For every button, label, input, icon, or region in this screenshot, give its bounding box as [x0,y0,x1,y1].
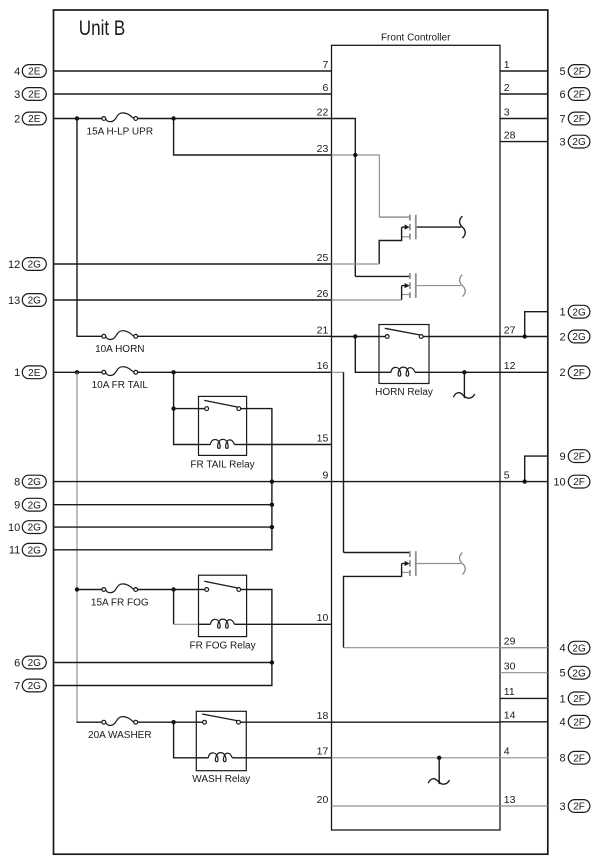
connector 13 2G [8,294,46,307]
wire pin 18 through to pin 14 [332,721,501,723]
fuse F3 10A FR TAIL [92,367,149,391]
squiggle Q2 output break [460,275,466,297]
svg-text:3: 3 [14,89,20,101]
svg-text:11: 11 [9,545,20,557]
wire pin 11 to 1 2F [500,697,548,699]
connector 8 2F right [559,751,589,764]
node junction bus-9 [270,479,274,483]
wire fuse F1 to pin 22 [138,118,332,120]
connector 9 2F [559,450,589,463]
wire pin 4 to 8 2F gray [500,757,548,759]
wire feeder corner to fuse F5 [76,721,102,723]
connector 10 2G [8,521,46,534]
svg-text:WASH Relay: WASH Relay [192,774,250,785]
relay K1 HORN Relay [375,325,433,398]
svg-text:2F: 2F [573,114,585,125]
svg-text:25: 25 [317,252,329,264]
svg-text:2G: 2G [572,307,586,318]
wire gray corner to FR FOG coil [174,623,199,625]
connector 6 2F [559,88,589,101]
svg-text:11: 11 [504,686,515,698]
wire pin 2 to 6 2F [500,93,548,95]
node junction 27 tap [523,334,527,338]
node junction horn coil gnd tap [462,370,466,374]
svg-text:2G: 2G [28,523,42,534]
svg-text:FR TAIL Relay: FR TAIL Relay [190,459,254,470]
svg-text:30: 30 [504,661,516,673]
svg-text:2G: 2G [28,681,42,692]
svg-text:9: 9 [559,451,565,463]
wire pin 12 to 2 2F [500,371,548,373]
wire 1 2E to fuse F3 [54,371,102,373]
wire pin 26 gray inside [332,299,402,301]
svg-text:13: 13 [8,295,20,307]
svg-text:22: 22 [317,106,329,118]
wire pin 27 to 2 2G [500,336,548,338]
svg-text:7: 7 [14,680,20,692]
wire 4 2E to pin 7 [54,70,332,72]
svg-text:29: 29 [504,636,516,648]
transistor Q1 MOSFET [379,215,415,240]
svg-text:2: 2 [14,113,20,125]
fuse F5 20A WASHER [88,717,152,741]
transistor Q3 MOSFET [344,551,416,576]
node junction bus-11 [270,525,274,529]
wire HORN switch out to pin 27 [429,336,500,338]
wire pin 22 down to MOSFET Q2 gate [332,119,356,277]
svg-text:6: 6 [559,89,565,101]
node junction wash gnd tap [437,756,441,760]
svg-text:2G: 2G [28,658,42,669]
svg-text:2G: 2G [572,643,586,654]
wire Q2 drain out gray [417,285,462,287]
wire 9 2G to bus [54,504,272,506]
svg-text:17: 17 [317,746,329,758]
connector 8 2G [14,475,46,488]
node junction pins 22-23 [353,153,357,157]
svg-text:2G: 2G [28,545,42,556]
svg-text:10: 10 [553,477,565,489]
wire FR FOG coil out to pin 10 [247,623,332,625]
svg-text:3: 3 [559,801,565,813]
wire horn coil feed down [355,337,379,373]
svg-text:18: 18 [317,710,329,722]
node junction F1 out [171,116,175,120]
wire 8 2G to pin 9 [54,481,332,483]
svg-text:Front Controller: Front Controller [381,33,451,44]
svg-text:2G: 2G [28,260,42,271]
svg-text:2G: 2G [28,296,42,307]
svg-text:2F: 2F [573,694,585,705]
svg-text:4: 4 [504,746,510,758]
connector 5 2G right [559,666,589,679]
svg-text:20: 20 [317,794,329,806]
wire pin 16 down to MOSFET Q3 gate [343,372,345,552]
svg-text:7: 7 [559,113,565,125]
connector 6 2G [14,656,46,669]
node junction F5 out [171,720,175,724]
svg-text:2: 2 [559,331,565,343]
wire branch up to 9 2F [525,456,548,482]
connector 7 2F [559,112,589,125]
svg-text:2G: 2G [28,477,42,488]
svg-text:2E: 2E [28,90,41,101]
relay K2 FR TAIL Relay [190,396,254,470]
fuse F2 10A HORN [95,331,144,355]
svg-text:16: 16 [317,360,329,372]
svg-text:21: 21 [317,324,329,336]
svg-text:10A FR TAIL: 10A FR TAIL [92,380,149,391]
wire FR TAIL coil out to pin 15 [247,444,332,446]
node junction fog feed [75,587,79,591]
svg-text:23: 23 [317,143,329,155]
wire fog feeder to fuse F4 [77,589,102,591]
svg-text:9: 9 [322,469,328,481]
svg-text:2F: 2F [573,90,585,101]
wire F3 branch down to FR TAIL relay [174,372,199,444]
fuse F1 15A H-LP UPR [87,113,154,137]
connector 5 2F [559,65,589,78]
svg-text:2F: 2F [573,368,585,379]
connector 4 2F right [559,715,589,728]
svg-text:2E: 2E [28,67,41,78]
ground wave below horn coil [453,372,474,398]
svg-text:FR FOG Relay: FR FOG Relay [189,640,255,651]
svg-text:2F: 2F [573,753,585,764]
connector 2 2G right [559,330,589,343]
wire pin 30 to 5 2G gray [500,672,548,674]
node junction 2E-B2 [75,370,79,374]
wire pin 29 row gray to right border [344,647,548,649]
svg-text:2F: 2F [573,67,585,78]
svg-text:27: 27 [504,324,516,336]
svg-text:10: 10 [317,612,329,624]
svg-text:5: 5 [504,469,510,481]
svg-text:28: 28 [504,129,516,141]
wire Q2 source down to pin 26 row [401,286,403,300]
connector 4 2G right [559,641,589,654]
svg-text:HORN Relay: HORN Relay [375,387,433,398]
svg-text:2F: 2F [573,802,585,813]
svg-text:12: 12 [504,360,516,372]
wire pin 17 through to pin 4 gray [332,757,501,759]
node junction F3 out [171,370,175,374]
node junction bus-6G [270,660,274,664]
connector 3 2G right [559,135,589,148]
ground wave below pin 17 row [428,758,449,784]
svg-text:13: 13 [504,794,516,806]
svg-text:4: 4 [559,643,565,655]
transistor Q2 MOSFET [355,273,416,298]
wire F1 branch down to pin 23 [174,119,332,156]
wire fuse F5 to WASH relay switch [138,721,197,723]
svg-text:2E: 2E [28,114,41,125]
node junction 5 tap [523,479,527,483]
connector 9 2G [14,498,46,511]
wire branch up to 1 2G [525,312,548,337]
connector 12 2G [8,258,46,271]
wire pin 16 gray stub into box [332,371,344,373]
svg-text:9: 9 [14,500,20,512]
connector 1 2E [14,366,46,379]
wire pin 25 gray inside [332,263,380,265]
wire pin 14 to 4 2F [500,721,548,723]
svg-text:1: 1 [559,693,565,705]
wire Q3 source step down to pin 29 row [344,564,402,648]
op-amp-box Front Controller U1 [332,45,501,830]
svg-text:2G: 2G [28,500,42,511]
svg-text:2: 2 [559,367,565,379]
wire FR TAIL switch feed [174,408,199,410]
connector 4 2E [14,65,46,78]
svg-text:4: 4 [559,717,565,729]
svg-text:15A H-LP UPR: 15A H-LP UPR [87,126,154,137]
svg-text:3: 3 [504,106,510,118]
svg-text:3: 3 [559,137,565,149]
svg-text:15: 15 [317,432,329,444]
svg-text:2G: 2G [572,137,586,148]
connector 2 2F right [559,366,589,379]
wire fuse F2 to pin 21 [138,335,332,337]
wire pin 23 gray to Q1 gate [332,155,410,217]
svg-text:Unit B: Unit B [79,16,126,40]
node junction FR TAIL switch feed [171,406,175,410]
connector 3 2E [14,88,46,101]
wire 10 2G to bus [54,526,272,528]
squiggle Q3 output break [460,553,466,575]
svg-text:2G: 2G [572,668,586,679]
wire pin 29 to 4 2G gray [500,647,548,649]
svg-text:2F: 2F [573,477,585,488]
relay K4 WASH Relay [192,711,250,785]
wire F4 branch down to FR FOG coil [173,590,175,625]
wire pin 20 through to pin 13 gray [332,805,501,807]
svg-text:6: 6 [14,657,20,669]
svg-text:2G: 2G [572,332,586,343]
wire WASH coil out to pin 17 [246,757,331,759]
wire pin 9 through to pin 5 [332,481,501,483]
svg-text:5: 5 [559,66,565,78]
wire pin 13 to 3 2F gray [500,805,548,807]
wire feeder from 2E junction down to HORN fuse F2 [77,119,102,337]
wire pin 28 to 3 2G [500,141,548,143]
node junction 2E-B1 [75,116,79,120]
wire FR FOG switch out to bus down [54,590,272,686]
svg-text:26: 26 [317,288,329,300]
svg-text:2F: 2F [573,452,585,463]
connector 3 2F right [559,800,589,813]
svg-text:12: 12 [8,259,20,271]
svg-text:14: 14 [504,710,516,722]
svg-text:20A WASHER: 20A WASHER [88,730,152,741]
wire pin 21 to HORN relay switch to pin 27 [332,336,380,338]
connector 10 2F [553,475,590,488]
svg-text:10: 10 [8,522,20,534]
wire 13 2G to pin 26 [54,299,332,301]
connector 7 2G [14,679,46,692]
wire F5 branch down to WASH coil [174,722,197,758]
svg-text:6: 6 [322,82,328,94]
wire WASH switch out pin 18 [246,721,331,723]
svg-text:5: 5 [559,668,565,680]
wire 3 2E to pin 6 [54,93,332,95]
wire 2 2E to fuse F1 [54,118,102,120]
svg-text:2: 2 [504,82,510,94]
svg-text:8: 8 [14,477,20,489]
wire fuse F3 to pin 16 [138,371,332,373]
connector 1 2F right [559,692,589,705]
wire 6 2G to bus [54,662,272,664]
wire pin 5 to 10 2F [500,481,548,483]
wire HORN coil out to pin 12 [429,371,500,373]
wire Q1 source step down to pin 25 row [379,227,401,264]
svg-text:2E: 2E [28,368,41,379]
wire pin 1 to 5 2F [500,70,548,72]
wire fuse F4 to FR FOG relay switch [138,589,199,591]
svg-text:4: 4 [14,66,20,78]
wire Q1 drain out [417,226,462,228]
wire Q3 drain out gray [417,563,462,565]
svg-text:1: 1 [14,367,20,379]
svg-text:7: 7 [322,59,328,71]
svg-text:1: 1 [559,307,565,319]
connector 1 2G right [559,305,589,318]
wire pin 3 to 7 2F [500,118,548,120]
svg-text:1: 1 [504,59,510,71]
wire 12 2G to pin 25 [54,263,332,265]
fuse F4 15A FR FOG [91,584,149,608]
wire FR TAIL switch out to bus down [54,409,272,550]
svg-text:8: 8 [559,753,565,765]
node junction bus-10 [270,503,274,507]
svg-text:2F: 2F [573,717,585,728]
connector 11 2G [9,543,46,556]
wire gray feeder from 1 2E junction down to washer row [76,372,78,722]
svg-text:10A HORN: 10A HORN [95,344,144,355]
connector 2 2E [14,112,46,125]
squiggle Q1 output break [460,216,466,238]
node junction horn feed [353,334,357,338]
svg-text:15A FR FOG: 15A FR FOG [91,597,149,608]
node junction F4 out [171,587,175,591]
relay K3 FR FOG Relay [189,575,255,651]
